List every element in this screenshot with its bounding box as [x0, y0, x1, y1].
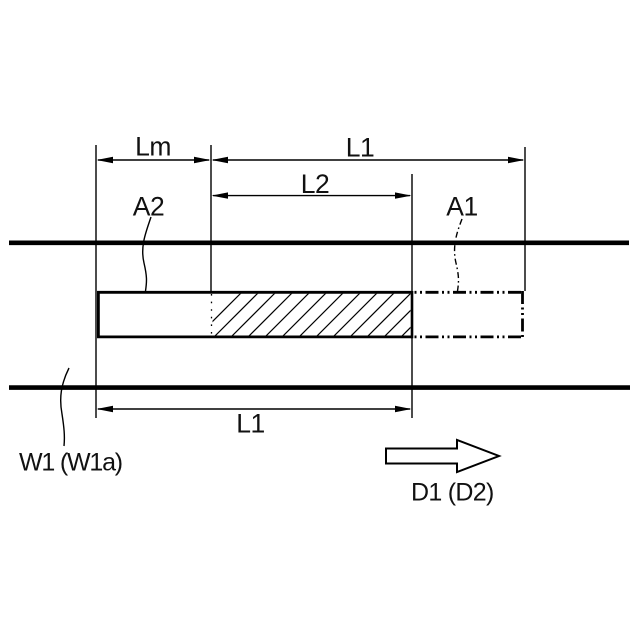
wire: dimension line L1 (top): [212, 157, 525, 163]
node: extension line at x=211 (Lm / L1 boundary): [210, 145, 212, 291]
svg-text:W1 (W1a): W1 (W1a): [19, 449, 122, 477]
node: extension line at x=525 (right end of top L1): [524, 147, 526, 291]
svg-text:A1: A1: [446, 192, 477, 222]
node: extension line at x=96 (left end of Lm / L1 bottom): [95, 145, 97, 418]
wire: solid vertical edge at right end of hatched zone x=412: [411, 291, 414, 338]
node: dotted boundary between Lm zone and L2 zone inside rectangle: [211, 294, 213, 336]
svg-text:L1: L1: [346, 133, 374, 163]
svg-text:L1: L1: [236, 409, 264, 439]
svg-text:D1 (D2): D1 (D2): [411, 479, 494, 507]
svg-text:Lm: Lm: [135, 132, 171, 162]
wire: dimension line L2: [212, 192, 412, 198]
node A1: phantom (dash-dot-dot) portion of rectangle: [415, 291, 523, 338]
wire: upper edge of web W1 (thick horizontal line): [9, 241, 629, 246]
svg-text:L2: L2: [301, 169, 329, 199]
svg-text:A2: A2: [133, 192, 164, 222]
wire: dashed leader line from label A1 to phantom rectangle: [455, 219, 462, 291]
arrow D1: hollow block arrow pointing right: [386, 440, 499, 472]
wire: leader line from label A2 to rectangle: [143, 217, 151, 291]
wire: dimension line L1 (bottom): [97, 406, 412, 412]
wire: dimension line Lm: [97, 157, 211, 163]
wire: lower edge of web W1 (thick horizontal line): [9, 385, 630, 390]
hatch: diagonal hatching of L2 zone: [196, 288, 450, 338]
node A2: solid outline part of the label region (rectangle solid portion): [98, 292, 412, 337]
node: extension line at x=412 (right end of L2 and bottom L1): [411, 174, 413, 418]
wire: leader line from label W1 to lower web line: [61, 368, 69, 446]
